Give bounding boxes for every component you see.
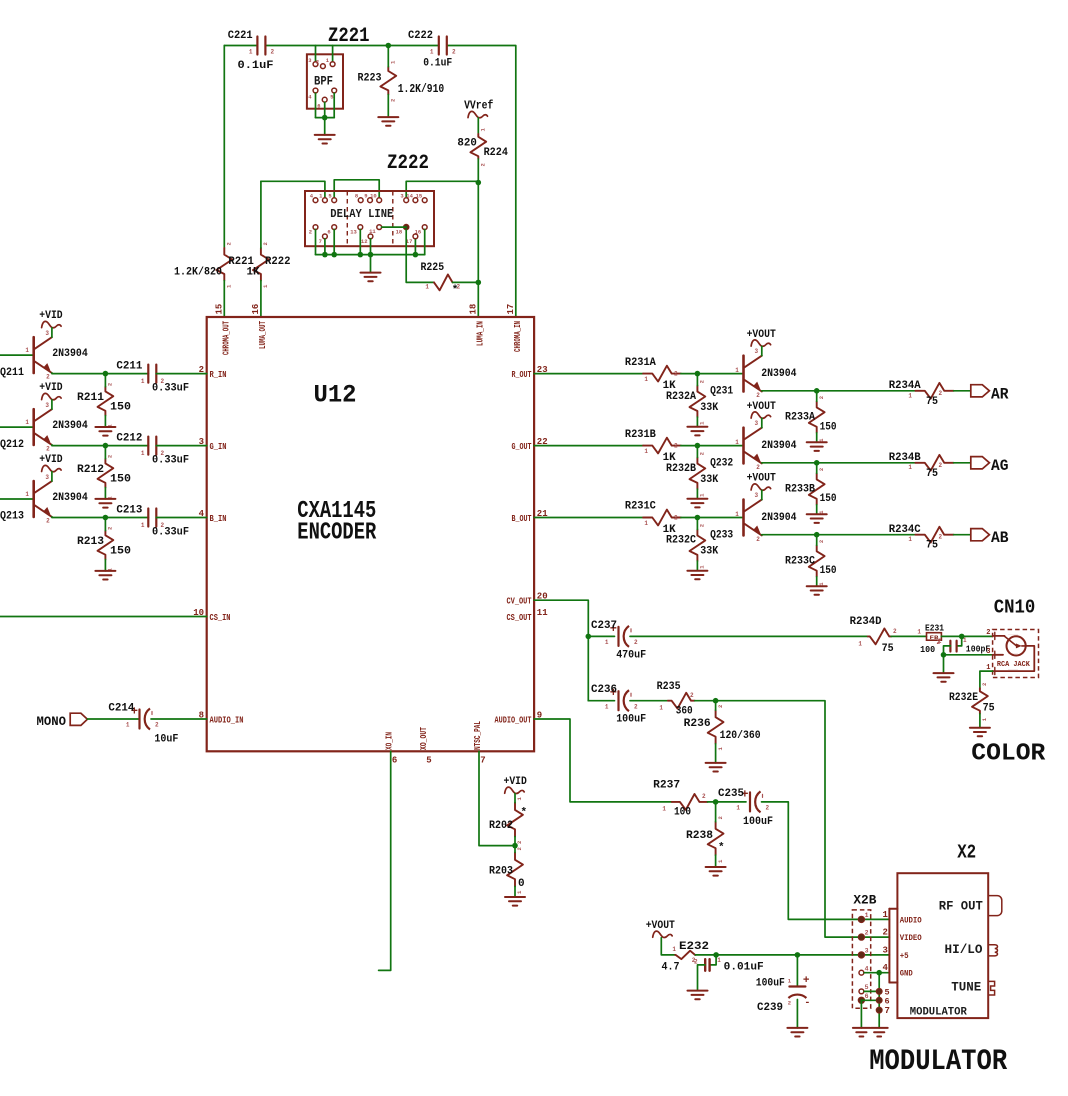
svg-text:1: 1 [883,910,889,920]
capacitor C212 0.33uF [116,432,189,466]
svg-text:100: 100 [920,645,935,655]
svg-text:2: 2 [452,49,456,56]
wire R234B to label AG [954,462,971,464]
svg-text:B_IN: B_IN [210,514,227,524]
wire emitter Q233 to R234C [762,534,916,536]
junction node Q212 emitter [103,443,109,449]
BPF top pin circles 3 2 1 [308,57,335,69]
svg-text:1: 1 [605,639,609,646]
svg-text:2: 2 [271,49,275,56]
resistor R233B 150 [785,463,837,514]
svg-text:15: 15 [214,304,224,315]
svg-text:R224: R224 [484,147,509,159]
wire R222 top to delay pin 1 [261,181,325,197]
wire collector Q213 to +VID [51,472,53,481]
svg-text:1.2K/910: 1.2K/910 [398,82,445,96]
svg-text:2: 2 [161,450,165,457]
U12 right pin names and numbers [495,365,549,725]
svg-text:CHROMA_OUT: CHROMA_OUT [221,321,231,355]
svg-text:470uF: 470uF [616,649,646,661]
svg-text:2: 2 [690,692,694,699]
svg-text:+: + [803,975,810,987]
filter Z221 BPF box [307,54,343,108]
svg-text:2: 2 [226,242,233,245]
wire collector Q211 to +VID [51,328,53,337]
wire R234D to E231 [891,635,926,637]
svg-text:2: 2 [702,793,706,800]
op-amp U12 CXA1145 encoder box [207,317,534,751]
wire junction down to 100pF [957,636,961,646]
junction BPF ground [322,115,328,121]
svg-text:E232: E232 [679,941,709,953]
module X2 modulator box [889,842,988,1019]
wire XO_IN pin 6 down [379,751,391,970]
junction node emitter Q233 [814,532,820,538]
power +VOUT for Q233 [747,473,777,491]
svg-text:MODULATOR: MODULATOR [910,1007,967,1019]
svg-text:11: 11 [537,608,548,618]
svg-text:1: 1 [25,491,29,498]
junction node C239 [795,952,801,958]
svg-text:C236: C236 [591,684,617,696]
wire C212 to U12 [156,445,206,447]
svg-text:1: 1 [425,284,429,291]
wire U12 output to R231A [534,373,643,375]
label MONO input [37,713,88,729]
svg-text:RF OUT: RF OUT [939,899,983,914]
ground R232E [970,728,990,737]
resistor R233C 150 [785,535,837,587]
svg-text:3: 3 [45,402,49,409]
wire top right segment to CHROMA_IN [447,46,516,318]
svg-text:1: 1 [126,722,130,729]
ground R213 [95,571,115,580]
svg-text:2: 2 [717,816,724,819]
svg-text:2: 2 [107,455,114,458]
junctions delay ground bus [322,252,418,258]
resistor R234C 75 [889,524,954,552]
capacitor 100pF [938,637,991,655]
wire C214 to AUDIO_IN [151,718,207,720]
U12 left pin names and numbers [193,365,243,725]
svg-text:150: 150 [110,402,131,414]
svg-text:2: 2 [699,524,706,527]
svg-text:1: 1 [908,536,912,543]
junction node NTSC divider [512,843,518,849]
svg-text:C237: C237 [591,620,617,632]
wire delay pin 3 to VVref net [406,181,478,197]
wire AUDIO_OUT pin 9 to R237 [534,719,672,802]
resistor R238 * [686,802,725,867]
resistor R234D 75 [850,616,897,655]
wire top net C221-Z221-R223-C222 [265,45,438,47]
X2B pin 6 dot [858,993,889,1006]
svg-text:100uF: 100uF [616,713,646,725]
svg-text:6: 6 [317,103,320,110]
wire CV_OUT pin 20 [534,600,588,701]
svg-text:R237: R237 [653,780,680,792]
svg-text:2: 2 [756,392,760,399]
resistor R222 1K [247,181,291,317]
label output AB [971,529,1009,548]
svg-text:6: 6 [392,755,397,765]
svg-text:4: 4 [883,963,889,973]
svg-text:2: 2 [309,229,312,236]
svg-text:5: 5 [426,755,431,765]
svg-text:2: 2 [865,930,869,937]
wire RCA pin1 to R232E [980,671,993,688]
svg-text:2: 2 [756,536,760,543]
svg-text:120/360: 120/360 [720,730,761,742]
svg-text:360: 360 [676,706,693,718]
svg-text:1: 1 [605,704,609,711]
svg-text:0.1uF: 0.1uF [423,58,452,70]
svg-text:2: 2 [634,704,638,711]
junction node 0.01uF cap [713,952,719,958]
svg-text:2: 2 [516,847,523,850]
svg-text:2: 2 [46,517,50,524]
resistor R224 820 [457,128,508,167]
transistor Q212 2N3904 [0,402,88,452]
junction node pin4 [876,970,882,976]
svg-text:4: 4 [865,965,869,972]
resistor R202 * [489,794,527,846]
svg-text:Z221: Z221 [328,25,370,48]
svg-text:Q232: Q232 [710,457,733,469]
wire emitter Q211 to junction [52,372,149,375]
svg-text:G_IN: G_IN [210,442,227,452]
svg-text:12: 12 [361,238,368,245]
svg-text:CS_IN: CS_IN [210,613,231,623]
svg-text:9: 9 [364,193,367,200]
svg-text:3: 3 [45,474,49,481]
svg-text:2: 2 [46,445,50,452]
ground R232A [687,427,707,436]
svg-text:R235: R235 [657,681,681,693]
wire top left segment [224,45,257,47]
svg-text:150: 150 [820,493,837,505]
svg-text:GND: GND [900,970,913,979]
wire C236 to R235 [630,700,668,702]
svg-text:5: 5 [865,984,869,991]
resistor R231A 1K [625,357,681,392]
power +VID for R202 [504,776,528,794]
svg-text:2: 2 [818,468,825,471]
svg-text:C239: C239 [757,1002,783,1014]
wire collector Q212 to +VID [51,400,53,409]
svg-text:1: 1 [917,629,921,636]
svg-text:1: 1 [736,805,740,812]
wire R224 down to LUMA_IN pin 18 [477,159,479,317]
label output AG [971,457,1009,476]
ground C239 [787,1028,807,1037]
svg-text:C212: C212 [116,432,142,444]
svg-text:+VOUT: +VOUT [747,473,777,485]
svg-text:3: 3 [865,948,869,955]
svg-text:33K: 33K [700,546,718,558]
svg-text:R222: R222 [265,256,291,268]
svg-text:13: 13 [350,229,357,236]
svg-text:4.7: 4.7 [662,962,680,974]
resistor R225 *2 [421,262,479,296]
svg-text:2: 2 [634,639,638,646]
resistor R236 120/360 [684,701,761,763]
svg-text:1: 1 [963,637,967,644]
capacitor C239 100uF [756,975,811,1014]
capacitor C236 100uF [591,684,646,725]
svg-text:6: 6 [885,996,890,1006]
svg-text:BPF: BPF [314,73,333,88]
svg-text:XO_OUT: XO_OUT [419,727,429,750]
connector X2B [852,892,876,1008]
wire collector Q232 [761,418,763,428]
junction node emitter Q231 [814,388,820,394]
wire C213 to U12 [156,517,206,519]
svg-text:R211: R211 [77,392,104,404]
svg-text:C222: C222 [408,30,433,42]
resistor R233A 150 [785,391,837,443]
svg-text:2: 2 [986,629,990,637]
capacitor 0.01uF [692,955,764,991]
svg-text:LUMA_OUT: LUMA_OUT [258,321,268,349]
wire U12 output to R231B [534,445,643,447]
wire base input Q212 [0,426,33,428]
svg-text:R236: R236 [684,718,711,730]
svg-text:2: 2 [107,383,114,386]
wire emitter Q232 to R234B [762,462,916,464]
svg-text:0: 0 [518,878,525,890]
ground R232B [687,499,707,508]
svg-text:1: 1 [662,806,666,813]
svg-text:2: 2 [756,464,760,471]
svg-text:2: 2 [818,396,825,399]
X2B pin 3 dot [858,945,888,958]
svg-text:1: 1 [908,392,912,399]
capacitor C235 100uF [718,787,773,828]
svg-text:1: 1 [865,912,869,919]
transistor Q211 2N3904 [0,330,88,380]
svg-text:0.01uF: 0.01uF [724,962,764,974]
delay line bottom pin circles [309,224,427,245]
svg-text:33K: 33K [700,474,718,486]
wire R237 to C235 [708,801,747,803]
svg-text:R233A: R233A [785,412,815,424]
svg-text:HI/LO: HI/LO [945,942,983,957]
junction node base Q233 [695,515,701,521]
svg-text:2: 2 [883,928,888,938]
resistor R231B 1K [625,429,681,464]
svg-text:2: 2 [893,628,897,635]
svg-text:MONO: MONO [37,714,67,729]
svg-text:C211: C211 [116,360,142,372]
power +VID for Q212 [39,382,63,400]
svg-text:2: 2 [717,705,724,708]
BPF ground bus wires [316,93,335,117]
svg-text:1: 1 [735,367,739,374]
BPF bottom pin circles 4 6 5 [308,88,336,109]
capacitor C221 0.1uF [228,30,275,72]
svg-text:100uF: 100uF [743,816,773,828]
wire C211 to U12 [156,373,206,375]
svg-text:3: 3 [45,330,49,337]
wire X2B pin6 to ground [860,1000,862,1028]
svg-text:R234C: R234C [889,524,921,536]
delay line ground bus wires [316,230,425,255]
svg-text:+VOUT: +VOUT [646,920,676,932]
svg-text:1: 1 [430,49,434,56]
wire delay ground stem [370,255,372,273]
svg-text:2: 2 [155,722,159,729]
svg-text:MODULATOR: MODULATOR [869,1045,1007,1079]
svg-text:2N3904: 2N3904 [761,368,797,380]
wire to C236 [588,700,614,702]
svg-text:Z222: Z222 [387,152,429,175]
power +VID for Q211 [39,310,63,328]
transistor Q232 2N3904 [710,420,797,471]
svg-text:2N3904: 2N3904 [52,348,88,360]
wire NTSC_PAL pin 7 to R202/R203 [479,751,515,845]
wire +VOUT to E232 [661,938,675,955]
junction node 100pF [959,634,965,640]
svg-text:1: 1 [858,641,862,648]
svg-text:3: 3 [755,420,759,427]
ground delay line [361,273,381,282]
svg-text:1: 1 [908,464,912,471]
wire X2B pin 4 GND net [864,973,889,1028]
svg-text:XO_IN: XO_IN [385,732,395,750]
ground R233B [807,514,827,523]
svg-text:R232C: R232C [666,535,696,547]
X2 RF OUT connector shape [988,896,1002,916]
svg-text:*: * [718,842,725,854]
wire shield ground stem [943,655,945,673]
svg-text:R213: R213 [77,536,104,548]
ferrite bead E232 4.7 [662,941,710,974]
svg-text:18: 18 [396,229,403,236]
svg-text:2N3904: 2N3904 [761,512,797,524]
svg-text:+VID: +VID [504,776,528,788]
svg-text:AUDIO_OUT: AUDIO_OUT [495,716,532,726]
svg-text:10: 10 [370,193,377,200]
resistor R212 150 [77,446,131,500]
svg-text:2: 2 [939,390,943,397]
svg-text:2: 2 [390,99,397,102]
svg-text:2N3904: 2N3904 [52,492,88,504]
wire CS_IN pin 10 [0,616,207,618]
svg-text:R203: R203 [489,865,513,877]
ground R212 [95,499,115,508]
svg-text:100uF: 100uF [756,977,785,989]
svg-text:R233B: R233B [785,483,815,495]
svg-text:1: 1 [249,49,253,56]
power +VID for Q213 [39,454,63,472]
svg-text:2: 2 [480,163,487,166]
svg-text:7: 7 [319,238,322,245]
ground R233A [807,442,827,451]
X2B pin 5 circle [859,984,890,997]
resistor R221 1.2K/820 [174,242,254,317]
connector CN10 RCA jack [986,629,1038,678]
svg-text:*: * [521,807,528,819]
wire C239 to ground [796,1000,798,1028]
svg-text:1: 1 [141,522,145,529]
label output AR [971,385,1009,404]
svg-text:16: 16 [251,304,261,315]
wire E231 to RCA pin 2 [941,635,992,637]
wire R234C to label AB [954,534,971,536]
svg-text:Q231: Q231 [710,386,733,398]
svg-text:2: 2 [46,374,50,381]
svg-text:COLOR: COLOR [971,741,1046,768]
label Z221 [328,25,370,48]
ground R238 [706,867,726,876]
svg-text:NTSC_PAL: NTSC_PAL [473,721,483,750]
delay line Z222 box [305,191,434,246]
X2 TUNE connector shape [988,981,994,995]
svg-text:0.33uF: 0.33uF [152,454,189,466]
svg-text:7: 7 [480,755,485,765]
power +VOUT for Q232 [747,401,777,419]
svg-text:0.1uF: 0.1uF [238,60,274,72]
svg-text:2N3904: 2N3904 [761,440,797,452]
svg-text:2: 2 [107,527,114,530]
svg-text:0.33uF: 0.33uF [152,382,189,394]
capacitor C211 0.33uF [116,360,189,394]
X2B pin 2 dot [858,928,888,941]
svg-text:2: 2 [161,522,165,529]
svg-text:14: 14 [406,193,413,200]
svg-text:R223: R223 [358,73,382,85]
wire collector Q233 [761,490,763,499]
transistor Q213 2N3904 [0,474,88,524]
svg-text:Q211: Q211 [0,367,24,379]
svg-text:1: 1 [644,376,648,383]
svg-text:DELAY LINE: DELAY LINE [330,208,393,221]
wire left drop to R221 [223,46,225,249]
ground R233C [807,586,827,595]
svg-text:3: 3 [755,492,759,499]
svg-text:AUDIO_IN: AUDIO_IN [210,716,244,726]
wire collector Q231 [761,346,763,355]
wire emitter Q213 to junction [52,516,149,519]
capacitor C214 10uF [108,703,178,746]
wire U12 output to R231C [534,517,643,519]
svg-text:R232E: R232E [949,692,978,704]
svg-text:Q233: Q233 [710,529,733,541]
delay line top pin circles [310,193,427,203]
wire R231C to base Q233 [681,517,742,519]
X2B pin 1 dot [858,910,888,923]
svg-text:R231C: R231C [625,501,656,513]
ground R232C [687,571,707,580]
junction node base Q231 [695,371,701,377]
svg-text:VIDEO: VIDEO [900,934,922,943]
junction node R236 [713,698,719,704]
resistor R203 0 [489,846,525,897]
wire R235 to video net [695,701,890,937]
svg-text:150: 150 [820,421,837,433]
svg-text:1: 1 [644,520,648,527]
svg-text:X2: X2 [957,842,976,864]
svg-text:C235: C235 [718,788,744,800]
wire R231A to base Q231 [681,373,742,375]
svg-text:1: 1 [735,439,739,446]
svg-text:G_OUT: G_OUT [512,442,532,452]
capacitor C237 470uF [591,620,646,661]
wire BPF ground stem [324,118,326,135]
resistor R232E 75 [949,683,995,728]
svg-text:17: 17 [506,304,516,315]
